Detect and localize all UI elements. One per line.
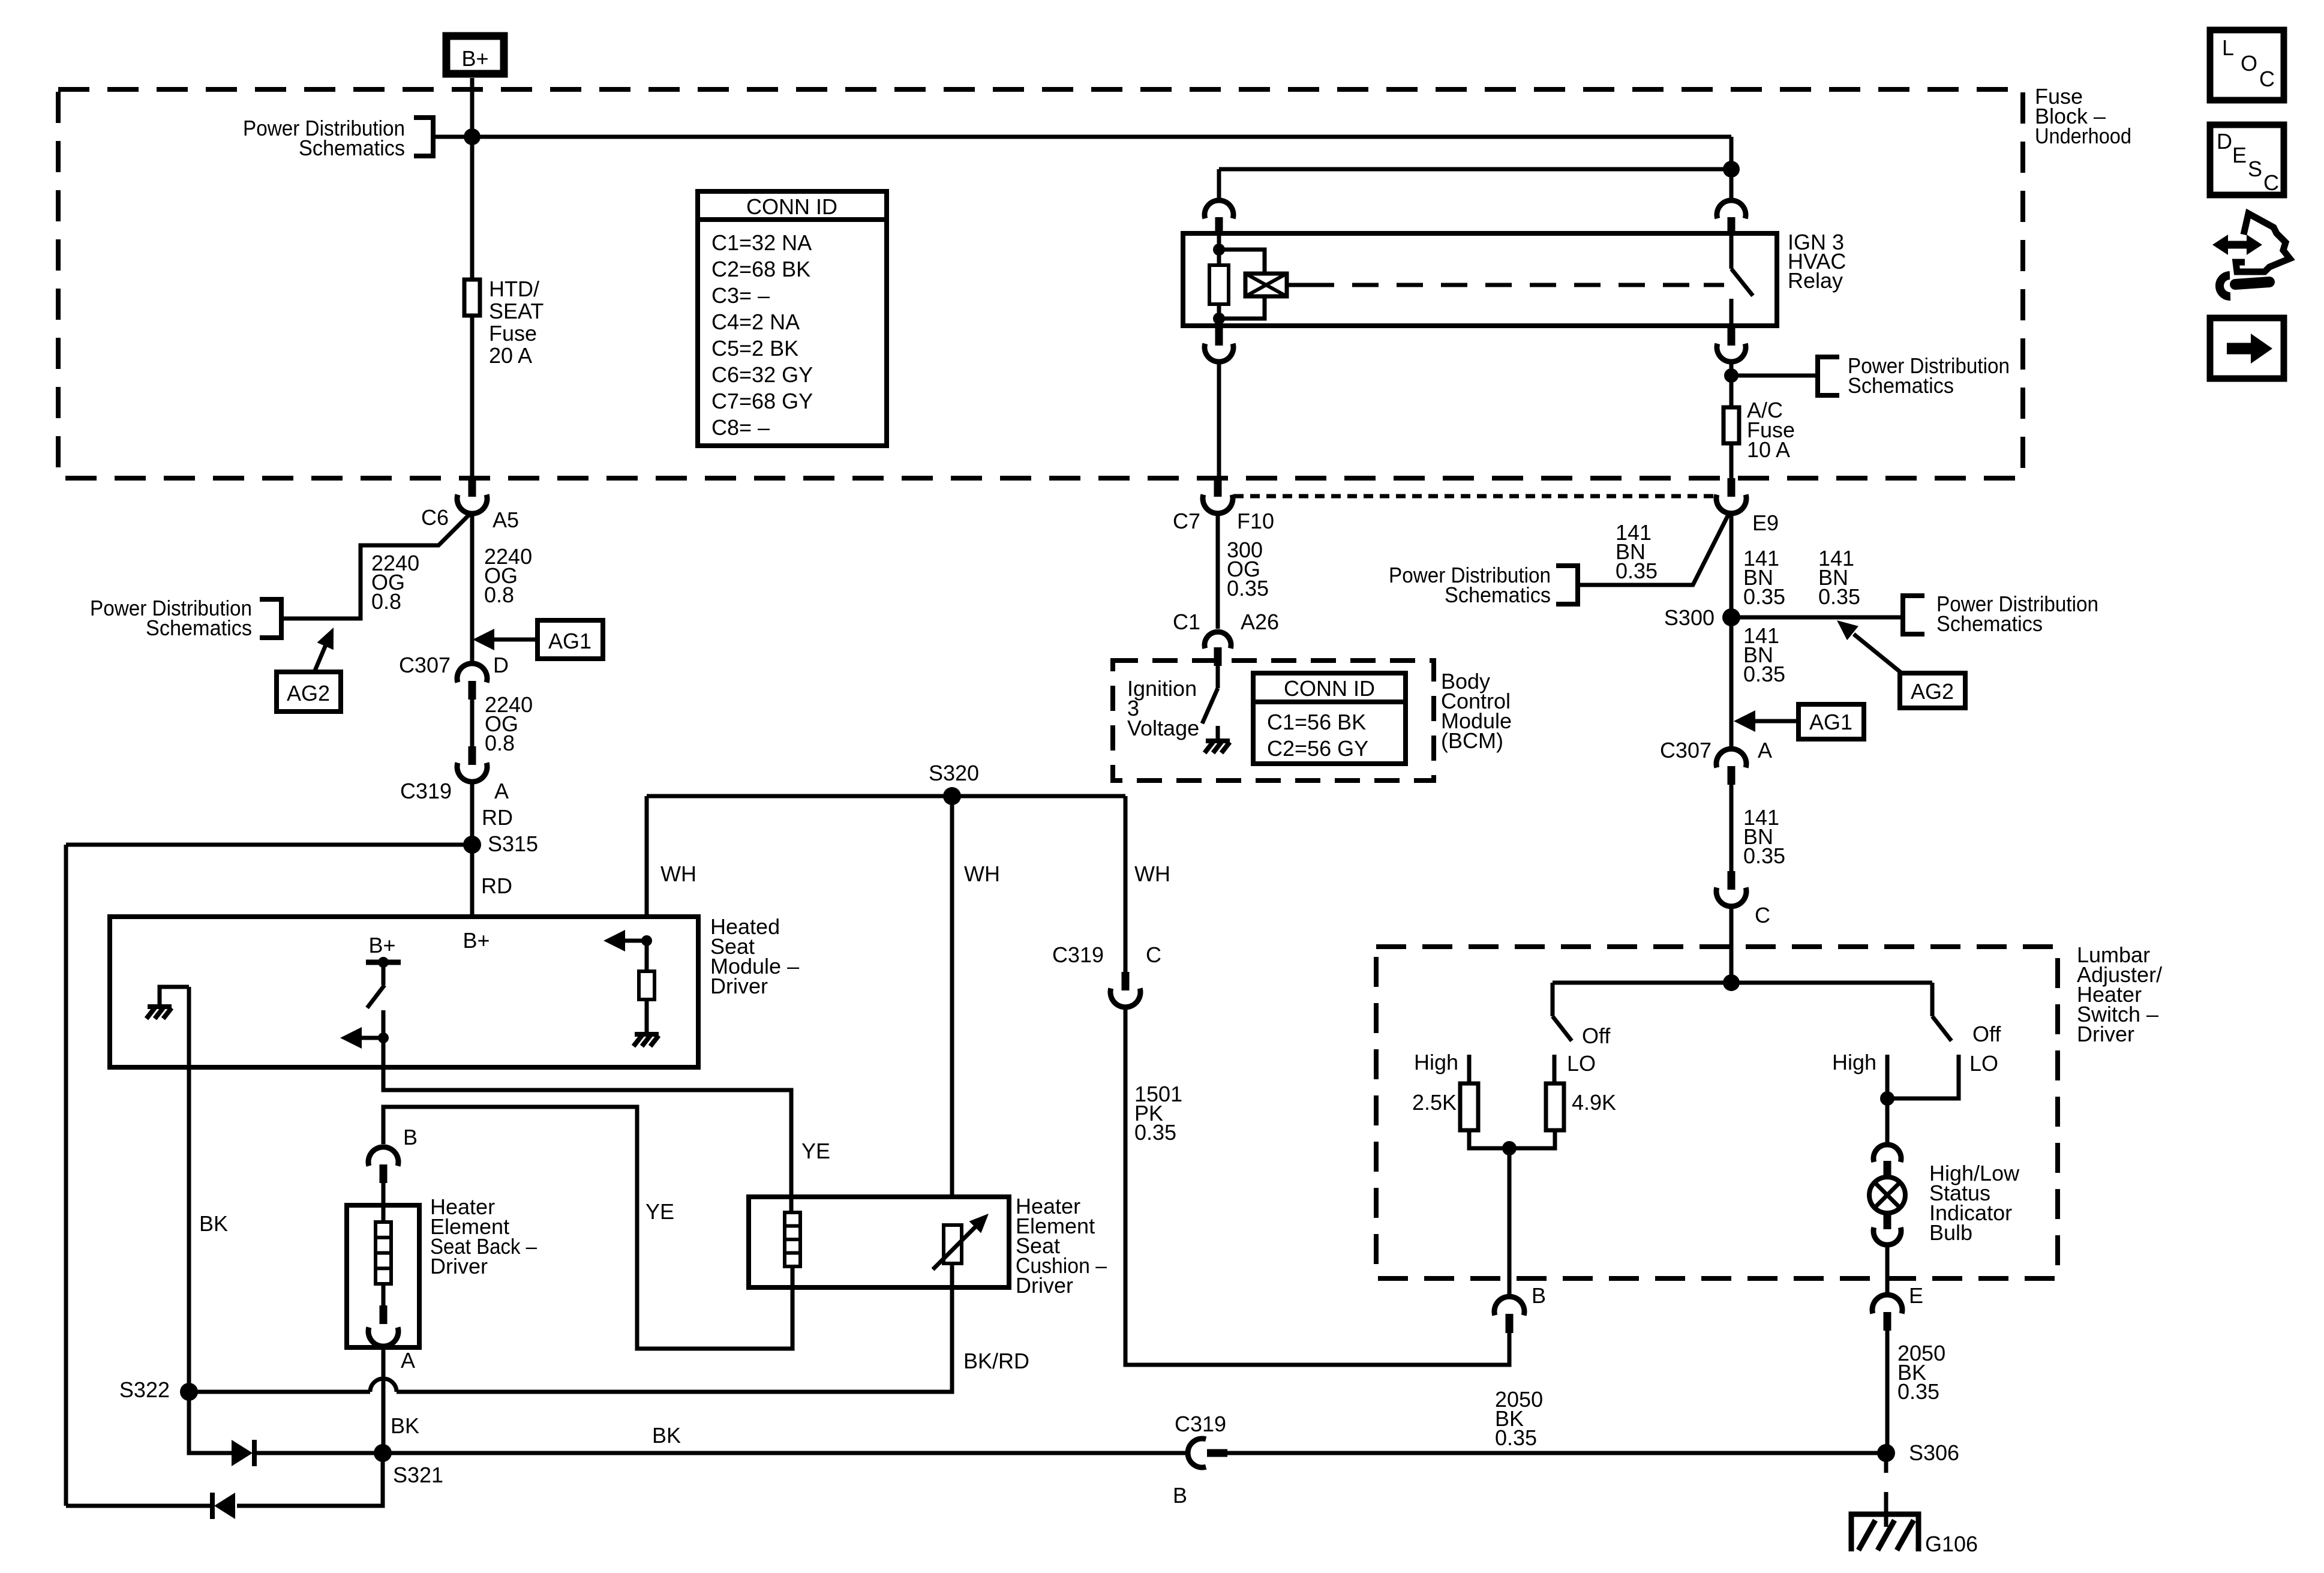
svg-text:B+: B+ — [461, 46, 488, 71]
wire: BK/RD to S322 — [189, 1390, 370, 1394]
wire: diode to left conductor — [66, 1504, 212, 1508]
svg-text:C: C — [1755, 903, 1770, 927]
svg-text:CONN ID: CONN ID — [746, 194, 837, 219]
wire: diode to S321 — [254, 1451, 383, 1455]
ground (module divider) — [633, 1034, 659, 1046]
wire: S300 branch right — [1731, 616, 1903, 620]
svg-text:Off: Off — [1972, 1022, 2001, 1046]
relay control dashed line — [1287, 283, 1724, 287]
connector: relay switch pin (top) — [1717, 200, 1746, 235]
heater element seat back box — [347, 1205, 419, 1347]
svg-text:C307: C307 — [399, 653, 451, 677]
wire: S321 lower branch — [237, 1453, 383, 1506]
label bracket: Power Distribution Schematics (top left) — [243, 116, 433, 160]
svg-text:0.35: 0.35 — [1818, 584, 1860, 609]
splice S315 — [463, 831, 538, 856]
svg-text:B+: B+ — [368, 933, 395, 957]
svg-text:Driver: Driver — [710, 974, 768, 998]
table: CONN ID (BCM) — [1253, 673, 1406, 764]
svg-text:0.35: 0.35 — [1743, 843, 1785, 868]
label: Off (left) — [1582, 1023, 1611, 1048]
wire: S321 to C319 B — [383, 1451, 1189, 1455]
wire: S315 to heated seat module B+ — [470, 845, 475, 919]
svg-text:S320: S320 — [929, 761, 979, 785]
junction: coil top — [1213, 244, 1225, 256]
svg-text:D: D — [493, 653, 509, 677]
svg-text:C4=2 NA: C4=2 NA — [711, 310, 800, 334]
svg-text:BK/RD: BK/RD — [963, 1349, 1029, 1373]
svg-text:0.35: 0.35 — [1897, 1379, 1939, 1404]
module switch — [366, 933, 401, 1038]
svg-text:C2=56 GY: C2=56 GY — [1267, 736, 1368, 761]
svg-text:C319: C319 — [400, 779, 452, 803]
connector C319/A — [400, 746, 509, 803]
svg-text:Fuse: Fuse — [489, 321, 537, 346]
svg-text:WH: WH — [660, 861, 696, 886]
label: WH (right) — [1134, 861, 1170, 886]
module feedback divider — [603, 930, 654, 1033]
connector B (lumbar switch) — [1494, 1283, 1546, 1333]
junction: coil bottom — [1213, 313, 1225, 325]
wire: F10 to BCM — [1216, 514, 1220, 629]
label: IGN 3 HVAC Relay — [1788, 230, 1846, 293]
connector B (seat back element) — [368, 1125, 418, 1183]
wire: A/C fuse to E9 — [1730, 443, 1734, 478]
svg-text:Voltage: Voltage — [1127, 716, 1199, 740]
svg-text:O: O — [2241, 51, 2257, 76]
svg-text:Schematics: Schematics — [146, 616, 252, 640]
label: WH (left) — [660, 861, 696, 886]
connector A (seat back element) — [368, 1305, 415, 1373]
svg-text:A: A — [494, 779, 509, 803]
bulb socket (bottom) — [1873, 1213, 1901, 1245]
ground G106 — [1851, 1514, 1978, 1556]
BCM ignition switch — [1202, 666, 1218, 740]
label: 2050 BK 0.35 (left) — [1495, 1387, 1543, 1450]
connector C307/A — [1660, 738, 1772, 785]
svg-text:C7=68 GY: C7=68 GY — [711, 389, 813, 413]
svg-text:0.35: 0.35 — [1134, 1120, 1176, 1145]
label: Heated Seat Module - Driver — [710, 914, 799, 998]
table: CONN ID (fuse block) — [698, 191, 887, 446]
label: 2240 OG 0.8 (branch) — [371, 551, 419, 614]
heater element (seat cushion) — [785, 1212, 800, 1266]
icon: LOC box — [2210, 30, 2284, 100]
svg-text:High: High — [1414, 1050, 1458, 1074]
svg-text:B+: B+ — [463, 928, 490, 953]
svg-text:C319: C319 — [1052, 942, 1104, 967]
wire: YE loop (cushion bottom to seat back B) — [383, 1107, 792, 1349]
svg-text:YE: YE — [645, 1199, 674, 1224]
wire: relay switch to A/C fuse — [1730, 361, 1734, 407]
label: BK (run) — [652, 1423, 681, 1448]
heater element (seat back) — [376, 1222, 391, 1284]
label: Body Control Module (BCM) — [1441, 669, 1512, 753]
wire: thermistor to BK/RD run — [397, 1263, 952, 1392]
wire: element to A connector — [382, 1284, 386, 1305]
wire: feed corner down to relay switch — [1730, 137, 1734, 202]
icon: harness repair symbol — [2212, 214, 2290, 296]
svg-text:SEAT: SEAT — [489, 299, 544, 323]
svg-text:Schematics: Schematics — [1936, 611, 2043, 636]
svg-text:C8= –: C8= – — [711, 415, 770, 440]
wire: E9 diagonal branch — [1578, 515, 1728, 585]
label bracket: Power Distribution Schematics (middle) — [1389, 563, 1578, 607]
callout AG2 (left) — [277, 628, 341, 712]
wire: 1501 PK to lumbar switch B — [1125, 1007, 1509, 1365]
wire: relay coil to C7 — [1217, 361, 1221, 478]
label: BK/RD — [963, 1349, 1029, 1373]
svg-text:B: B — [1173, 1483, 1187, 1508]
wire: coil feed (horizontal) — [1219, 167, 1731, 172]
svg-text:E: E — [1909, 1283, 1923, 1308]
wire: main feed B+ to relay (horizontal) — [433, 135, 1731, 139]
junction: A/C feed tap — [1724, 368, 1739, 383]
wire: S315 branch left — [66, 843, 472, 847]
label: LO (right) — [1969, 1051, 1998, 1076]
wire: A to S321 — [382, 1346, 386, 1453]
label bracket: Power Distribution Schematics (right) — [1903, 592, 2098, 636]
svg-text:B: B — [1532, 1283, 1546, 1308]
svg-text:C5=2 BK: C5=2 BK — [711, 336, 798, 361]
wire: switch feed bus — [1553, 981, 1932, 985]
label: 2240 OG 0.8 (lower) — [485, 692, 533, 755]
svg-text:F10: F10 — [1237, 509, 1274, 533]
svg-text:0.8: 0.8 — [484, 583, 514, 607]
svg-text:(BCM): (BCM) — [1441, 728, 1503, 753]
connector C307/D — [399, 653, 509, 700]
wire: WH to seat cushion thermistor — [950, 796, 954, 1199]
svg-text:Driver: Driver — [2077, 1022, 2134, 1046]
wire: C319 B to S306 — [1227, 1451, 1886, 1455]
splice S306 — [1877, 1440, 1959, 1465]
svg-text:G106: G106 — [1925, 1532, 1978, 1556]
wire: fuse to C6 connector — [470, 316, 475, 478]
svg-text:C: C — [1146, 942, 1161, 967]
wire: left return conductor down — [64, 845, 68, 1506]
svg-text:E: E — [2232, 143, 2247, 167]
label: 300 OG 0.35 — [1227, 538, 1269, 601]
label: Off (right) — [1972, 1022, 2001, 1046]
label: YE (x1062) — [645, 1199, 674, 1224]
svg-text:S: S — [2248, 157, 2262, 181]
connector: relay switch pin (bottom) — [1717, 327, 1746, 362]
label: 141 BN 0.35 (branch) — [1616, 520, 1658, 583]
label: 141 BN 0.35 (above S300) — [1743, 546, 1785, 609]
fuse HTD/SEAT 20A — [464, 280, 480, 316]
svg-text:S306: S306 — [1909, 1440, 1959, 1465]
svg-text:0.35: 0.35 — [1227, 576, 1269, 601]
heater element seat cushion box — [749, 1197, 1009, 1287]
svg-text:D: D — [2217, 129, 2232, 154]
svg-text:LO: LO — [1567, 1051, 1596, 1076]
svg-text:S315: S315 — [488, 831, 538, 856]
svg-text:2.5K: 2.5K — [1412, 1090, 1457, 1115]
svg-text:C1: C1 — [1173, 610, 1200, 634]
label: 1501 PK 0.35 — [1134, 1082, 1182, 1145]
contact pins (right switch) — [1887, 1055, 1959, 1098]
wire: S322 to diode — [189, 1392, 232, 1453]
label: Ignition 3 Voltage — [1127, 676, 1199, 740]
svg-text:C7: C7 — [1173, 509, 1200, 533]
label: Lumbar Adjuster/Heater Switch - Driver — [2077, 942, 2162, 1046]
wire: WH to C319 C — [1124, 796, 1128, 972]
svg-text:Schematics: Schematics — [1445, 583, 1551, 607]
label: 2240 OG 0.8 (main) — [484, 544, 532, 607]
svg-text:AG2: AG2 — [1911, 679, 1954, 704]
svg-text:Driver: Driver — [430, 1254, 488, 1278]
label: B+ (module pin) — [463, 928, 490, 953]
label: Fuse Block - Underhood — [2035, 84, 2131, 148]
connector E9 — [1716, 478, 1779, 535]
connector C319/B — [1173, 1412, 1227, 1508]
resistor 2.5K — [1412, 1083, 1478, 1130]
lumbar adjuster/heater switch dashed box — [1376, 947, 2058, 1278]
label: 2050 BK 0.35 (right) — [1897, 1341, 1945, 1404]
connector C7/F10 — [1173, 478, 1274, 533]
label: A/C Fuse 10 A — [1747, 398, 1795, 462]
wire: C to lumbar switch — [1730, 906, 1734, 983]
module output arrow — [340, 1027, 383, 1049]
label: WH (middle) — [964, 861, 1000, 886]
svg-text:A: A — [401, 1348, 415, 1373]
connector C6/A5 (fuse block output) — [421, 478, 519, 532]
callout AG1 (right) — [1734, 704, 1864, 739]
wire: down to relay coil pin — [1217, 169, 1221, 202]
connector: relay coil pin (bottom) — [1205, 327, 1233, 362]
wire: B+ down to HTD/SEAT fuse — [470, 78, 475, 280]
relay box IGN 3 HVAC — [1183, 233, 1777, 326]
relay switch contact — [1731, 235, 1753, 327]
svg-text:20 A: 20 A — [489, 343, 532, 368]
wire: B to element — [382, 1183, 386, 1222]
wire: C307 to C319 — [470, 700, 475, 746]
junction: module output — [378, 1032, 389, 1043]
svg-text:B: B — [403, 1125, 418, 1149]
svg-text:AG1: AG1 — [1809, 710, 1852, 734]
svg-text:A26: A26 — [1241, 610, 1279, 634]
svg-text:LO: LO — [1969, 1051, 1998, 1076]
svg-text:Bulb: Bulb — [1929, 1220, 1972, 1245]
svg-text:BK: BK — [199, 1211, 228, 1236]
heater switch blade (left) — [1553, 983, 1572, 1041]
svg-text:0.35: 0.35 — [1495, 1425, 1537, 1450]
wire: bulb to connector E — [1885, 1245, 1890, 1293]
svg-text:C6: C6 — [421, 505, 449, 530]
splice S320 — [929, 761, 979, 805]
svg-text:Driver: Driver — [1016, 1273, 1073, 1298]
svg-text:4.9K: 4.9K — [1572, 1090, 1616, 1115]
high/low status indicator bulb — [1869, 1177, 1905, 1213]
callout AG1 (left) — [473, 620, 603, 659]
svg-text:C6=32 GY: C6=32 GY — [711, 362, 813, 387]
label: High/Low Status Indicator Bulb — [1929, 1161, 2020, 1245]
wire hop over seat back wire — [370, 1379, 397, 1392]
svg-text:WH: WH — [964, 861, 1000, 886]
svg-text:C3= –: C3= – — [711, 283, 770, 308]
svg-text:S321: S321 — [393, 1463, 443, 1487]
svg-text:C2=68 BK: C2=68 BK — [711, 257, 810, 281]
junction: bulb feed — [1880, 1091, 1894, 1106]
label: YE (x1319) — [801, 1139, 830, 1163]
icon: arrow box — [2210, 318, 2284, 379]
svg-text:L: L — [2222, 35, 2234, 60]
wire: E to S306 — [1885, 1331, 1890, 1453]
relay suppression element (box with X) — [1219, 250, 1287, 319]
svg-text:0.35: 0.35 — [1743, 584, 1785, 609]
svg-text:RD: RD — [482, 805, 513, 830]
label: HTD/SEAT Fuse 20 A — [489, 277, 544, 368]
junction: resistor output — [1502, 1141, 1517, 1155]
svg-text:Schematics: Schematics — [1848, 373, 1954, 398]
fuse block - underhood dashed box — [58, 89, 2023, 478]
wire: module output to cushion element — [383, 1038, 791, 1212]
label: High (right) — [1832, 1050, 1876, 1074]
label: BK (module ground) — [199, 1211, 228, 1236]
junction: relay coil tap — [1723, 161, 1740, 178]
wire: resistors junction — [1469, 1130, 1555, 1148]
ground (BCM internal) — [1205, 741, 1230, 753]
wire: C319 A to S315 — [470, 782, 475, 845]
splice S321 — [374, 1444, 443, 1487]
connector E (lumbar switch) — [1872, 1283, 1923, 1331]
svg-text:Off: Off — [1582, 1023, 1611, 1048]
svg-text:A: A — [1758, 738, 1772, 763]
resistor 4.9K — [1546, 1083, 1616, 1130]
svg-text:C1=56 BK: C1=56 BK — [1267, 710, 1366, 734]
wire: E9 to S300 — [1730, 514, 1734, 617]
wire: S306 to ground G106 — [1884, 1453, 1888, 1527]
svg-text:AG2: AG2 — [287, 681, 330, 706]
svg-text:C: C — [2263, 170, 2279, 195]
diode (return to left conductor) — [212, 1493, 235, 1519]
svg-text:BK: BK — [391, 1413, 419, 1438]
svg-text:E9: E9 — [1752, 511, 1779, 535]
icon: DESC box — [2210, 125, 2284, 195]
wire: WH to heated seat module — [645, 796, 649, 919]
svg-text:Schematics: Schematics — [299, 136, 405, 160]
relay coil resistor — [1209, 235, 1229, 327]
label: RD (above S315) — [482, 805, 513, 830]
label: RD (below S315) — [481, 873, 512, 898]
svg-text:AG1: AG1 — [548, 629, 591, 653]
junction: switch feed — [1723, 974, 1740, 991]
bulb socket (top) — [1873, 1145, 1901, 1177]
svg-text:Underhood: Underhood — [2035, 124, 2131, 148]
svg-text:C1=32 NA: C1=32 NA — [711, 230, 812, 255]
svg-text:HTD/: HTD/ — [489, 277, 539, 301]
splice S300 — [1664, 605, 1740, 630]
wire: C307 A down — [1730, 785, 1734, 871]
svg-text:CONN ID: CONN ID — [1284, 676, 1375, 701]
label: LO (left) — [1567, 1051, 1596, 1076]
svg-text:A5: A5 — [493, 508, 519, 532]
connector: relay coil pin (top) — [1205, 200, 1233, 235]
wire: WH bus (horizontal) — [647, 794, 1125, 798]
wire: C6 branch to power distribution — [283, 515, 469, 619]
label: 141 BN 0.35 (right) — [1818, 546, 1860, 609]
module internal ground step — [160, 987, 189, 1005]
connector link dashed line — [1234, 494, 1715, 499]
diode (S322 to S321) — [232, 1440, 254, 1466]
label: High (left) — [1414, 1050, 1458, 1074]
svg-text:WH: WH — [1134, 861, 1170, 886]
label: BK (S321) — [391, 1413, 419, 1438]
svg-text:C319: C319 — [1175, 1412, 1226, 1436]
svg-text:10 A: 10 A — [1747, 437, 1790, 462]
wire: S300 to C307 — [1730, 617, 1734, 748]
connector C1/A26 — [1173, 610, 1279, 666]
battery B+ box — [446, 36, 504, 74]
svg-text:C307: C307 — [1660, 738, 1712, 763]
wire: A5 down to C307 — [470, 514, 475, 663]
fuse A/C 10A — [1724, 407, 1739, 443]
connector C (to lumbar switch) — [1716, 871, 1770, 927]
svg-text:S322: S322 — [119, 1377, 170, 1402]
label: 141 BN 0.35 (lower) — [1743, 805, 1785, 868]
svg-text:RD: RD — [481, 873, 512, 898]
heater switch blade (right) — [1932, 983, 1951, 1041]
wire: tap to power distribution bracket — [1731, 374, 1818, 378]
cushion thermistor — [933, 1214, 989, 1269]
label: Heater Element Seat Back - Driver — [430, 1194, 537, 1278]
label bracket: Power Distribution Schematics (left) — [90, 596, 281, 640]
svg-text:0.8: 0.8 — [485, 731, 515, 755]
body control module dashed box — [1113, 661, 1434, 781]
svg-text:Relay: Relay — [1788, 268, 1843, 293]
label bracket: Power Distribution Schematics (relay) — [1818, 353, 2010, 398]
svg-text:C: C — [2259, 67, 2275, 91]
svg-text:0.35: 0.35 — [1616, 559, 1658, 583]
contact pins (left switch) — [1469, 1055, 1554, 1083]
label: Heater Element Seat Cushion - Driver — [1016, 1194, 1107, 1298]
connector C319/C — [1052, 942, 1161, 1007]
svg-text:BK: BK — [652, 1423, 681, 1448]
svg-text:0.8: 0.8 — [371, 589, 401, 614]
label: 141 BN 0.35 (below S300) — [1743, 623, 1785, 686]
svg-text:0.35: 0.35 — [1743, 662, 1785, 686]
wire: module ground BK to S322 — [187, 987, 191, 1392]
wire: to indicator bulb — [1885, 1098, 1890, 1145]
svg-text:S300: S300 — [1664, 605, 1715, 630]
splice S322 — [119, 1377, 198, 1402]
ground (module internal) — [146, 1007, 172, 1019]
junction: B+ tap — [464, 128, 481, 145]
callout AG2 (right) — [1837, 620, 1965, 708]
heated seat module box — [110, 917, 698, 1067]
svg-text:YE: YE — [801, 1139, 830, 1163]
wire: to connector B — [1508, 1148, 1512, 1295]
svg-text:High: High — [1832, 1050, 1876, 1074]
